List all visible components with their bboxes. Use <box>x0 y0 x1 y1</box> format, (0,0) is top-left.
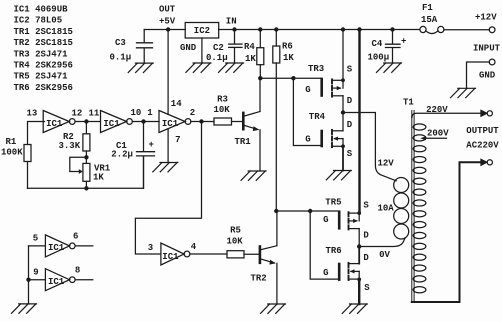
svg-text:R6: R6 <box>282 41 293 51</box>
node TR3 S rail junction dot <box>341 27 345 31</box>
node TR3/TR4 drain junction dot <box>341 110 345 114</box>
svg-text:TR4 2SK2956: TR4 2SK2956 <box>14 61 73 71</box>
resistor R6 <box>273 30 280 212</box>
resistor R2 <box>83 122 90 164</box>
svg-text:IC1: IC1 <box>162 252 179 262</box>
pin 6 label <box>73 232 78 242</box>
svg-text:IC2 78L05: IC2 78L05 <box>14 16 63 26</box>
wire R1 top to inverter A input <box>28 122 45 145</box>
op-amp U1 inverter E (pins 5-6) unused <box>29 235 93 257</box>
ground C3 <box>128 63 153 72</box>
resistor R1 label <box>1 137 23 158</box>
svg-text:G: G <box>305 85 310 95</box>
resistor R4 label <box>244 42 256 64</box>
svg-text:TR2 2SC1815: TR2 2SC1815 <box>14 38 73 48</box>
inverter E IC1 label <box>48 243 65 253</box>
svg-text:100μ: 100μ <box>368 52 390 62</box>
wire bridge node to transformer 0V tap <box>359 238 405 247</box>
TR3 source lead to +12V rail <box>342 30 344 81</box>
op-amp U1 inverter B (pins 11-10) <box>101 111 133 133</box>
inverter B IC1 label <box>103 119 120 129</box>
wire GND terminal to ground <box>467 62 490 88</box>
svg-text:10K: 10K <box>227 237 244 247</box>
pin 14 supply lead <box>167 30 169 115</box>
node TR5/TR6 drain junction dot <box>357 244 361 248</box>
fuse F1 labels <box>421 3 438 25</box>
svg-text:OUTPUT: OUTPUT <box>466 126 499 136</box>
wire R4 node to TR3/TR4 gates <box>260 77 293 79</box>
capacitor C3 value label <box>110 38 132 63</box>
TR3 D label <box>347 96 353 106</box>
pin 11 label <box>89 109 100 119</box>
transformer T1 primary winding <box>394 178 409 240</box>
svg-text:IC1: IC1 <box>48 277 65 287</box>
inverter C IC1 label <box>162 252 179 262</box>
transistor TR1 label <box>235 137 252 147</box>
svg-text:R1: R1 <box>6 137 17 147</box>
svg-text:TR4: TR4 <box>309 112 326 122</box>
transistor TR4 n-channel mosfet <box>332 130 345 148</box>
potentiometer VR1 <box>70 157 90 188</box>
resistor R5 label <box>227 226 244 247</box>
transistor TR4 label <box>309 112 326 122</box>
svg-text:G: G <box>305 135 310 145</box>
svg-text:R3: R3 <box>217 95 228 105</box>
terminal +12V labels <box>473 13 501 54</box>
ground C4 <box>377 63 402 72</box>
svg-text:10A: 10A <box>378 203 395 213</box>
svg-text:10K: 10K <box>214 105 231 115</box>
svg-text:12: 12 <box>72 109 83 119</box>
resistor R3 label <box>214 95 231 116</box>
svg-text:12V: 12V <box>378 159 395 169</box>
ground TR6 source <box>342 304 367 313</box>
svg-text:1K: 1K <box>283 53 294 63</box>
wire inverter C out to R5 <box>190 253 227 255</box>
capacitor C4 labels <box>368 37 407 63</box>
node unused inputs junction dot <box>26 278 30 282</box>
wire fuse to +12V input terminal <box>444 29 489 31</box>
terminal output top arrow and circle <box>481 110 492 116</box>
fuse F1 <box>420 26 444 33</box>
svg-text:G: G <box>323 268 328 278</box>
TR6 S label <box>364 283 370 293</box>
node IN junction dot <box>232 27 236 31</box>
ground TR1 emitter <box>241 171 266 180</box>
inverter A IC1 label <box>46 119 63 129</box>
transistor Q2 TR2 <box>260 211 277 304</box>
pin 10 label <box>131 108 142 118</box>
op-amp U1 inverter C (pins 3-4) <box>161 243 190 265</box>
svg-text:1: 1 <box>147 108 153 118</box>
svg-text:INPUT: INPUT <box>473 44 501 54</box>
parts list <box>14 5 73 93</box>
resistor R3 <box>214 118 242 125</box>
TR4 gate G label <box>305 135 310 145</box>
svg-text:0.1μ: 0.1μ <box>206 53 228 63</box>
TR6 D label <box>363 253 369 263</box>
ground input GND <box>451 88 476 97</box>
resistor R4 <box>257 30 264 79</box>
regulator IC2 <box>185 23 219 39</box>
svg-text:14: 14 <box>171 99 182 109</box>
svg-text:4: 4 <box>191 242 197 252</box>
wire oscillator bottom rail <box>28 157 144 189</box>
svg-text:1K: 1K <box>93 172 104 182</box>
node +12V feed rail junction dot <box>357 27 361 31</box>
transformer T1 label <box>403 97 414 107</box>
IC2 GND pin lead <box>201 38 203 63</box>
transistor Q1 TR1 <box>243 78 260 171</box>
svg-text:R4: R4 <box>244 42 255 52</box>
svg-text:G: G <box>323 215 328 225</box>
capacitor C2 <box>229 30 242 64</box>
transformer T1 secondary winding <box>413 124 426 293</box>
svg-text:F1: F1 <box>422 3 433 13</box>
ground pin 7 <box>153 163 178 172</box>
svg-text:6: 6 <box>73 232 78 242</box>
resistor R2 label <box>59 132 81 151</box>
TR5 drain lead <box>358 229 360 247</box>
svg-text:IC1 4069UB: IC1 4069UB <box>14 5 69 15</box>
IC2 GND pin label <box>180 43 197 53</box>
svg-text:C2: C2 <box>213 43 224 53</box>
200V tap label <box>427 128 449 138</box>
svg-text:3.3K: 3.3K <box>59 141 81 151</box>
TR3 S label <box>347 64 353 74</box>
wire TR3 gate bracket <box>293 78 321 95</box>
svg-text:C3: C3 <box>115 38 126 48</box>
svg-text:TR1 2SC1815: TR1 2SC1815 <box>14 27 73 37</box>
capacitor C4 top junction dot <box>390 27 394 31</box>
ground TR2 emitter <box>261 304 286 313</box>
TR4 source lead to ground <box>342 146 344 170</box>
svg-text:2: 2 <box>190 108 195 118</box>
inverter F IC1 label <box>48 277 65 287</box>
svg-text:100K: 100K <box>1 148 23 158</box>
wire bridge node to transformer 12V tap <box>343 113 396 181</box>
transistor TR3 p-channel mosfet <box>332 78 345 96</box>
wire secondary 220V tap to output terminal <box>412 113 481 117</box>
svg-text:200V: 200V <box>427 128 449 138</box>
wire inverter A out to inverter B in <box>75 121 100 123</box>
svg-text:220V: 220V <box>426 105 448 115</box>
svg-text:D: D <box>363 253 369 263</box>
svg-text:8: 8 <box>75 266 80 276</box>
220V tap label <box>426 105 448 115</box>
wire TR2 node to TR5/TR6 gates <box>276 210 310 212</box>
svg-text:S: S <box>347 149 353 159</box>
node R2/VR1 junction dot <box>84 155 88 159</box>
resistor R1 <box>24 145 31 189</box>
0V tap label <box>379 250 390 260</box>
pin 2 label <box>190 108 195 118</box>
svg-text:R5: R5 <box>230 226 241 236</box>
potentiometer VR1 label <box>93 164 111 183</box>
TR6 drain lead to bridge node <box>358 247 360 264</box>
resistor R4 top junction dot <box>258 27 262 31</box>
svg-text:D: D <box>347 120 353 130</box>
pin 7 ground lead <box>167 129 169 163</box>
capacitor C1 <box>137 122 155 189</box>
TR5 S label <box>363 200 369 210</box>
node R6/TR2 collector junction dot <box>274 209 278 213</box>
transistor TR6 n-channel mosfet <box>349 263 362 281</box>
svg-text:S: S <box>363 200 369 210</box>
ground TR4 source <box>326 171 351 180</box>
TR6 source lead to ground <box>358 279 360 304</box>
svg-text:S: S <box>364 283 370 293</box>
svg-text:TR6 2SK2956: TR6 2SK2956 <box>14 83 73 93</box>
pin 13 label <box>27 109 38 119</box>
svg-text:IC1: IC1 <box>48 243 65 253</box>
transistor TR2 label <box>251 274 267 284</box>
inverter D IC1 label <box>162 119 179 129</box>
svg-text:D: D <box>347 96 353 106</box>
svg-text:+12V: +12V <box>475 13 497 23</box>
pin 12 label <box>72 109 83 119</box>
pin 7 label <box>175 135 180 145</box>
wire +12V rail IC2 to fuse <box>219 29 420 31</box>
svg-text:+5V: +5V <box>159 17 176 27</box>
svg-text:0V: 0V <box>379 250 390 260</box>
svg-text:T1: T1 <box>403 97 414 107</box>
terminal GND input <box>489 59 495 65</box>
svg-text:2.2μ: 2.2μ <box>111 149 133 159</box>
wire feedback pin2 to inverter C input <box>135 122 201 255</box>
svg-text:D: D <box>363 231 369 241</box>
transistor TR6 label <box>326 246 342 256</box>
svg-text:11: 11 <box>89 109 100 119</box>
primary 10A label <box>378 203 395 213</box>
svg-text:C4: C4 <box>372 39 383 49</box>
op-amp U1 inverter D (pins 1-2) <box>159 111 191 133</box>
svg-text:10: 10 <box>131 108 142 118</box>
node IN label <box>226 17 237 27</box>
12V tap label <box>378 159 395 169</box>
wire TR6 gate bracket <box>310 211 339 280</box>
svg-text:AC220V: AC220V <box>466 141 499 151</box>
TR3 drain lead <box>342 96 344 113</box>
ground C2 <box>219 63 244 72</box>
svg-text:IN: IN <box>226 17 237 27</box>
node VR1 bottom junction dot <box>84 186 88 190</box>
wire inverter B out to inverter D in <box>132 121 159 123</box>
TR4 drain lead to bridge node <box>342 113 344 131</box>
node TR5/TR6 gate feed junction dot <box>308 209 312 213</box>
wire TR4 gate bracket <box>293 78 321 146</box>
svg-text:GND: GND <box>180 43 197 53</box>
wire thick +12V feed to TR5 source <box>358 30 360 213</box>
ground IC2 <box>186 63 211 72</box>
svg-text:GND: GND <box>479 71 496 81</box>
pin 14 label <box>171 99 182 109</box>
op-amp U1 inverter A (pins 13-12) <box>43 111 75 133</box>
wire secondary bottom to output terminal <box>412 162 481 302</box>
200V tap stub <box>425 137 447 139</box>
svg-text:IC1: IC1 <box>46 119 63 129</box>
resistor R6 top junction dot <box>274 27 278 31</box>
svg-text:TR6: TR6 <box>326 246 342 256</box>
TR3 gate G label <box>305 85 310 95</box>
svg-text:3: 3 <box>148 243 153 253</box>
wire +5V rail from C3 tap to IC2 <box>144 29 185 31</box>
terminal +12V input <box>489 27 495 33</box>
node R4/TR1 collector junction dot <box>258 76 262 80</box>
transformer T1 core <box>412 111 414 303</box>
svg-text:13: 13 <box>27 109 38 119</box>
resistor R5 <box>227 251 259 258</box>
svg-text:OUT: OUT <box>159 5 176 15</box>
capacitor C3 <box>137 30 153 64</box>
svg-text:5: 5 <box>33 234 38 244</box>
svg-text:TR3 2SJ471: TR3 2SJ471 <box>14 49 69 59</box>
OUTPUT AC220V labels <box>466 126 499 151</box>
pin 3 label <box>148 243 153 253</box>
svg-text:+: + <box>149 140 154 150</box>
svg-text:IC1: IC1 <box>103 119 120 129</box>
transistor TR3 label <box>308 64 324 74</box>
wire unused inputs to ground <box>28 280 30 304</box>
svg-text:+: + <box>401 37 406 47</box>
svg-text:1K: 1K <box>245 54 256 64</box>
capacitor C4 <box>386 30 401 64</box>
transistor TR5 label <box>325 197 341 207</box>
op-amp U1 inverter F (pins 9-8) unused <box>29 246 93 291</box>
pin 5 label <box>33 234 38 244</box>
TR6 gate G label <box>323 268 328 278</box>
svg-text:9: 9 <box>33 268 38 278</box>
TR5 D label <box>363 231 369 241</box>
node C1 tap junction dot <box>141 119 145 123</box>
svg-text:TR5: TR5 <box>325 197 341 207</box>
wire TR5 gate bracket <box>310 211 339 228</box>
svg-text:TR5 2SJ471: TR5 2SJ471 <box>14 72 69 82</box>
wire inverter D output node <box>191 121 214 123</box>
svg-text:TR2: TR2 <box>251 274 267 284</box>
transistor TR5 p-channel mosfet <box>349 211 362 229</box>
pin 8 label <box>75 266 80 276</box>
TR4 D label <box>347 120 353 130</box>
pin 4 label <box>191 242 197 252</box>
resistor R6 label <box>282 41 294 63</box>
svg-text:IC1: IC1 <box>162 119 179 129</box>
capacitor C1 labels <box>111 140 154 159</box>
svg-text:TR1: TR1 <box>235 137 252 147</box>
node R2 tap junction dot <box>84 119 88 123</box>
node pin2 output junction dot <box>199 119 203 123</box>
pin 1 label <box>147 108 153 118</box>
svg-text:7: 7 <box>175 135 180 145</box>
pin 9 label <box>33 268 38 278</box>
node TR3/TR4 gate feed junction dot <box>291 76 295 80</box>
TR5 gate G label <box>323 215 328 225</box>
ground unused inverter inputs <box>12 304 37 313</box>
node +5V OUT junction dot <box>166 27 170 31</box>
terminal GND label <box>479 71 496 81</box>
TR4 S label <box>347 149 353 159</box>
svg-text:TR3: TR3 <box>308 64 324 74</box>
svg-text:0.1μ: 0.1μ <box>110 53 132 63</box>
capacitor C2 value label <box>206 43 228 63</box>
svg-text:S: S <box>347 64 353 74</box>
svg-text:15A: 15A <box>421 15 438 25</box>
svg-text:IC2: IC2 <box>194 26 210 36</box>
regulator IC2 label <box>194 26 210 36</box>
node OUT +5V label <box>159 5 176 27</box>
terminal output bottom arrow and circle <box>481 159 492 165</box>
